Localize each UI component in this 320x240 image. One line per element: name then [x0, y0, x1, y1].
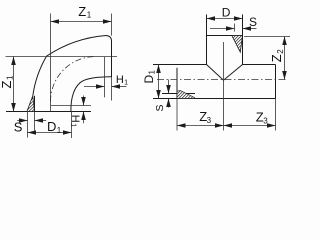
svg-text:Z: Z [78, 4, 86, 19]
svg-text:D: D [142, 75, 156, 84]
svg-text:1: 1 [6, 75, 15, 80]
svg-text:1: 1 [124, 80, 128, 87]
svg-text:2: 2 [276, 49, 285, 54]
svg-text:1: 1 [148, 70, 157, 75]
svg-text:1: 1 [57, 126, 62, 135]
svg-text:H: H [69, 115, 81, 123]
svg-text:1: 1 [69, 123, 76, 127]
svg-text:D: D [47, 119, 56, 134]
svg-text:D: D [222, 6, 231, 20]
svg-text:S: S [154, 104, 166, 111]
svg-text:H: H [116, 74, 124, 86]
svg-text:Z: Z [269, 54, 284, 62]
svg-text:3: 3 [263, 117, 268, 126]
svg-text:3: 3 [207, 116, 212, 125]
svg-text:Z: Z [0, 81, 14, 89]
svg-text:S: S [14, 120, 23, 135]
svg-text:1: 1 [87, 11, 92, 20]
svg-text:S: S [249, 15, 257, 29]
